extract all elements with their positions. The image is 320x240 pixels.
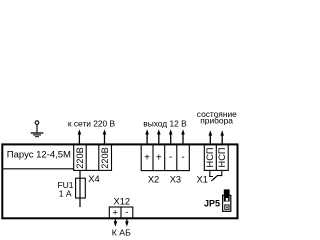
svg-text:+: + [156,153,162,164]
wire from X4 to fuse [79,170,81,207]
svg-text:К АБ: К АБ [112,228,131,238]
svg-text:220В: 220В [100,147,110,168]
svg-text:-: - [169,152,172,163]
svg-text:X4: X4 [88,174,99,184]
svg-text:прибора: прибора [200,116,233,126]
svg-text:НСП: НСП [205,148,215,168]
arrow to mains (left) [78,129,82,143]
fuse FU1 [76,178,86,198]
arrow to battery (right) [125,219,129,226]
arrow to battery (left) [114,219,118,226]
arrow to mains (right) [103,129,107,143]
svg-text:X2: X2 [148,175,159,185]
svg-text:JP5: JP5 [204,199,220,209]
label compartment line [3,168,73,170]
svg-text:к сети 220 В: к сети 220 В [68,119,116,129]
svg-text:+: + [112,208,118,219]
arrows device status [209,130,225,143]
main enclosure box [2,144,237,218]
svg-text:1 А: 1 А [59,189,72,199]
terminal block X4 [74,144,112,170]
svg-text:X12: X12 [114,197,131,207]
svg-text:X1: X1 [197,175,208,185]
svg-text:+: + [144,153,150,164]
arrows output 12V [145,129,185,143]
svg-text:220В: 220В [75,147,85,168]
svg-text:-: - [125,207,128,218]
terminal block X12 [109,207,133,219]
svg-text:X3: X3 [170,175,181,185]
svg-text:НСП: НСП [217,148,227,168]
jumper JP5 icon [223,189,231,211]
terminal block X1 [204,144,228,170]
svg-text:-: - [181,152,184,163]
relay contact symbol [210,171,222,181]
svg-text:выход 12 В: выход 12 В [143,119,187,129]
terminal block X2/X3 [141,144,189,170]
ground [31,121,44,137]
svg-text:Парус 12-4,5М: Парус 12-4,5М [7,150,71,161]
